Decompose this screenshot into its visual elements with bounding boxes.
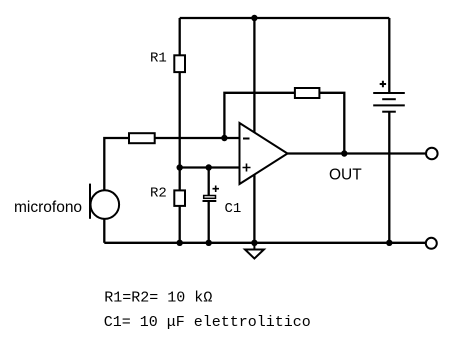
svg-text:microfono: microfono	[14, 199, 82, 216]
svg-text:R1: R1	[150, 51, 167, 67]
svg-text:OUT: OUT	[329, 167, 362, 184]
svg-text:R1=R2= 10 kΩ: R1=R2= 10 kΩ	[104, 290, 212, 307]
svg-text:C1= 10 μF elettrolitico: C1= 10 μF elettrolitico	[104, 314, 311, 331]
svg-text:R2: R2	[150, 186, 167, 202]
svg-text:C1: C1	[225, 201, 242, 217]
